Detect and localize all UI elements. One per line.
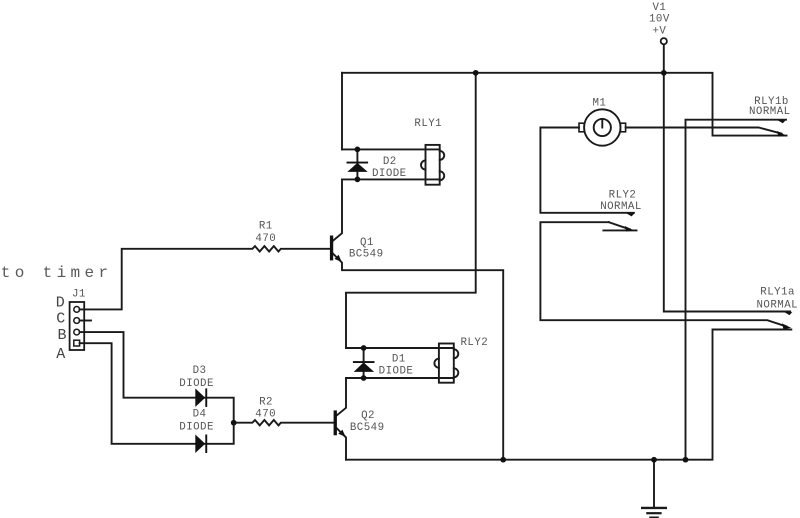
- svg-text:Q2: Q2: [361, 410, 375, 422]
- svg-text:D: D: [56, 295, 65, 312]
- svg-text:J1: J1: [72, 288, 86, 300]
- svg-text:10V: 10V: [649, 14, 670, 26]
- svg-text:D3: D3: [193, 365, 207, 377]
- svg-text:M1: M1: [592, 97, 606, 109]
- svg-text:RLY2: RLY2: [609, 189, 637, 201]
- svg-text:B: B: [58, 327, 67, 344]
- svg-text:to timer: to timer: [1, 264, 113, 282]
- svg-text:DIODE: DIODE: [379, 365, 414, 377]
- svg-text:470: 470: [255, 409, 276, 421]
- svg-text:NORMAL: NORMAL: [749, 106, 791, 118]
- svg-text:D1: D1: [392, 354, 406, 366]
- svg-text:D2: D2: [383, 156, 397, 168]
- svg-text:C: C: [56, 311, 65, 328]
- svg-text:DIODE: DIODE: [179, 421, 214, 433]
- svg-text:Q1: Q1: [360, 237, 374, 249]
- svg-text:RLY1: RLY1: [414, 118, 442, 130]
- svg-text:NORMAL: NORMAL: [600, 201, 642, 213]
- svg-text:DIODE: DIODE: [179, 378, 214, 390]
- svg-text:NORMAL: NORMAL: [757, 300, 799, 312]
- svg-text:V1: V1: [652, 2, 666, 14]
- svg-text:BC549: BC549: [350, 422, 385, 434]
- svg-text:R1: R1: [259, 221, 273, 233]
- svg-text:R2: R2: [259, 396, 273, 408]
- svg-text:470: 470: [255, 233, 276, 245]
- svg-text:RLY2: RLY2: [461, 337, 489, 349]
- svg-text:D4: D4: [193, 409, 207, 421]
- svg-text:A: A: [56, 346, 65, 363]
- svg-text:BC549: BC549: [349, 249, 384, 261]
- svg-text:RLY1a: RLY1a: [760, 287, 795, 299]
- svg-text:+V: +V: [652, 25, 666, 37]
- svg-text:DIODE: DIODE: [372, 168, 407, 180]
